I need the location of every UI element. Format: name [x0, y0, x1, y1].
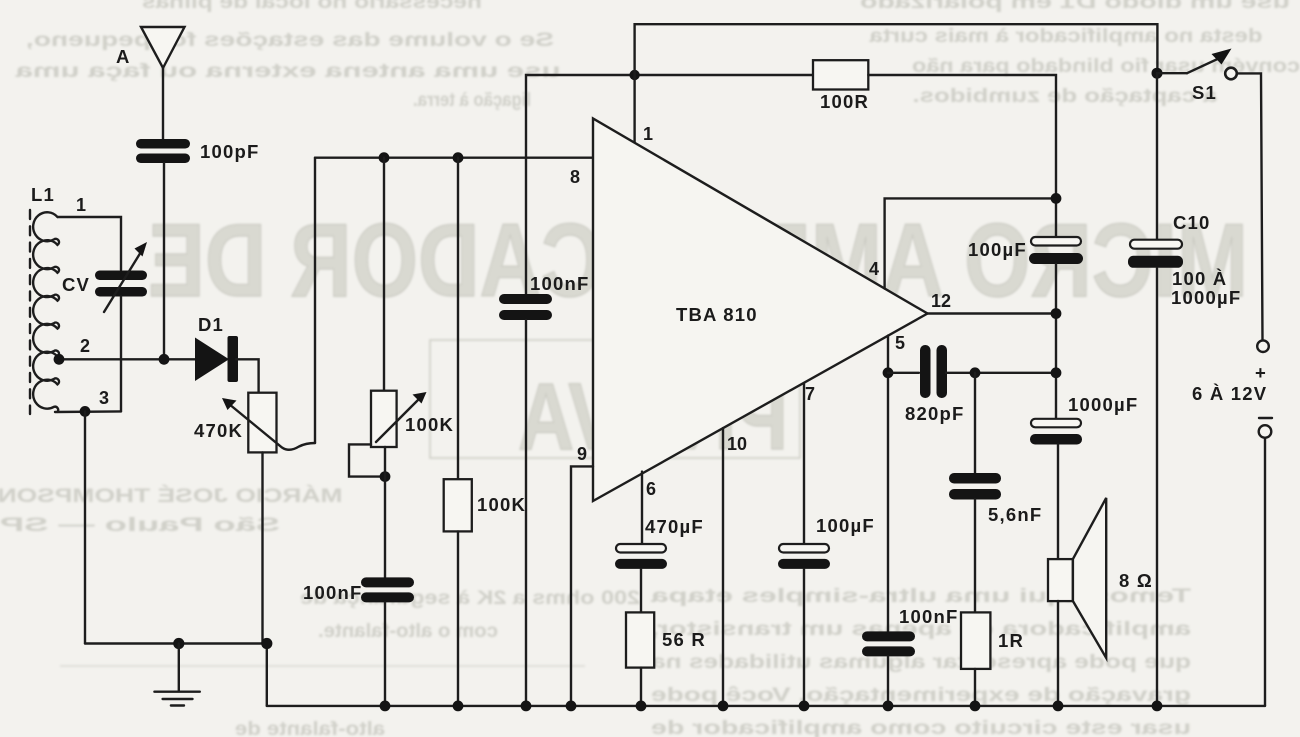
svg-text:5,6nF: 5,6nF [988, 504, 1042, 525]
node + terminal [1257, 340, 1269, 352]
node bus junction C10 [1152, 701, 1163, 712]
svg-text:100µF: 100µF [968, 239, 1027, 260]
svg-text:necessário no local de pilhas: necessário no local de pilhas [142, 0, 482, 13]
ghost rule bottom-left [60, 665, 585, 667]
svg-text:5: 5 [895, 333, 905, 353]
svg-text:D1: D1 [198, 314, 224, 335]
svg-text:TBA 810: TBA 810 [676, 304, 758, 325]
svg-text:use uma antena externa ou faça: use uma antena externa ou faça uma [15, 60, 560, 82]
wire pin3 down to ground rail [84, 411, 86, 643]
svg-text:A: A [116, 46, 131, 67]
speaker 8 ohm [1048, 559, 1073, 601]
svg-text:4: 4 [869, 259, 879, 279]
node bus junction 100uF [799, 701, 810, 712]
svg-text:Temos aqui uma ultra-simples e: Temos aqui uma ultra-simples etapa [651, 585, 1191, 607]
svg-text:use um diodo D1 em polarizado: use um diodo D1 em polarizado [860, 0, 1290, 13]
potentiometer 100K [371, 391, 397, 447]
svg-text:1000µF: 1000µF [1068, 394, 1138, 415]
svg-text:12: 12 [931, 291, 951, 311]
node coil tap 2 [54, 354, 65, 365]
wire pot to 100nF [384, 447, 386, 577]
node bus junction 56R [636, 701, 647, 712]
wire C10 supply line [1156, 73, 1158, 240]
svg-text:São Paulo — SP: São Paulo — SP [0, 514, 280, 536]
wire 100pF to detector line [163, 163, 165, 359]
node bus junction volume line [380, 701, 391, 712]
wire 470K wiper to pin8 rail [314, 158, 316, 443]
node pin5 820pF [883, 367, 894, 378]
svg-text:8: 8 [570, 167, 580, 187]
svg-text:56 R: 56 R [662, 629, 706, 650]
antenna A [141, 27, 185, 68]
svg-text:Se o volume das estações for p: Se o volume das estações for pequeno, [26, 29, 554, 51]
svg-text:C10: C10 [1173, 212, 1211, 233]
svg-text:820pF: 820pF [905, 403, 964, 424]
svg-text:3: 3 [99, 388, 109, 408]
wire S1 to + terminal [1237, 73, 1263, 340]
svg-text:L1: L1 [31, 184, 55, 205]
wire 5,6nF line [974, 373, 976, 473]
wire rail A top [635, 24, 1158, 143]
svg-text:100nF: 100nF [530, 273, 589, 294]
svg-text:1: 1 [643, 124, 653, 144]
wire pin5 [887, 336, 889, 632]
node pin3 [80, 406, 91, 417]
node bus junction 1R [970, 701, 981, 712]
wire diode to 470K [236, 359, 259, 392]
svg-text:que pode apresentar algumas ut: que pode apresentar algumas utilidades n… [651, 651, 1191, 673]
potentiometer 470K [248, 393, 276, 453]
ghost frame around PROVA [430, 340, 800, 458]
capacitor 100pF [136, 139, 190, 149]
resistor 1R [961, 612, 990, 669]
wire bottom bus [267, 705, 1265, 707]
op-amp U1 TBA810 [593, 119, 928, 502]
wire rail to 100K pot [383, 158, 385, 391]
svg-text:100pF: 100pF [200, 141, 259, 162]
node pin1 rail junction [629, 70, 639, 80]
svg-text:7: 7 [805, 384, 815, 404]
svg-text:8 Ω: 8 Ω [1119, 570, 1153, 591]
node bus junction 100nF pin5 [883, 701, 894, 712]
svg-text:1R: 1R [998, 630, 1024, 651]
node - terminal [1259, 417, 1272, 419]
svg-text:CV: CV [62, 274, 90, 295]
svg-text:MÁRCIO JOSÉ THOMPSON: MÁRCIO JOSÉ THOMPSON [0, 484, 343, 507]
wire pin6 [641, 472, 643, 544]
svg-text:desta no amplificador à mais c: desta no amplificador à mais curta [869, 25, 1262, 47]
wire 470K bottom to ground rail [261, 452, 263, 643]
svg-text:100nF: 100nF [303, 582, 362, 603]
wire pin10 [722, 428, 724, 706]
wire 100K wiper loop [349, 444, 386, 476]
node bus junction 100nF rail [521, 701, 532, 712]
wire ground rail [85, 644, 267, 706]
capacitor 820pF [888, 372, 919, 374]
svg-text:100nF: 100nF [899, 606, 958, 627]
wire pin12 [928, 312, 1057, 314]
svg-text:100K: 100K [477, 494, 526, 515]
node wiper junction [380, 471, 391, 482]
resistor 100R [813, 60, 868, 89]
resistor 100K [444, 479, 472, 531]
wire Vcc bypass line [526, 75, 813, 294]
svg-text:a captação de zumbidos.: a captação de zumbidos. [913, 85, 1218, 107]
node antenna junction [159, 354, 170, 365]
svg-text:9: 9 [577, 444, 587, 464]
svg-text:100 À: 100 À [1172, 268, 1227, 289]
node bus junction pin10 [718, 701, 729, 712]
svg-text:470µF: 470µF [645, 516, 704, 537]
svg-text:1: 1 [76, 195, 86, 215]
node ground stem [173, 638, 184, 649]
node 470K bottom [261, 638, 272, 649]
svg-text:100µF: 100µF [816, 515, 875, 536]
svg-text:1000µF: 1000µF [1171, 287, 1241, 308]
wire 100K resistor line [457, 158, 459, 480]
wire pin7 [803, 383, 805, 544]
svg-text:com o alto-falante.: com o alto-falante. [318, 620, 498, 642]
wire CV to pin3 line [120, 297, 122, 412]
node 100K res top [453, 152, 464, 163]
svg-text:100R: 100R [820, 91, 869, 112]
svg-text:S1: S1 [1192, 82, 1217, 103]
wire 100R to bootstrap line [868, 75, 1056, 237]
node output junction [1051, 367, 1062, 378]
svg-text:100K: 100K [405, 414, 454, 435]
svg-text:470K: 470K [194, 420, 243, 441]
node 5,6nF top [970, 367, 981, 378]
svg-text:gravação de experimentação. Vo: gravação de experimentação. Você pode [651, 684, 1191, 706]
svg-text:+: + [1255, 362, 1267, 383]
node pin4 bootstrap [1051, 193, 1062, 204]
svg-text:10: 10 [727, 434, 747, 454]
node 100K pot top [379, 152, 390, 163]
capacitor 5,6nF [949, 473, 1001, 484]
resistor 56R [626, 612, 654, 667]
ground [178, 644, 180, 692]
svg-text:alto-falante de: alto-falante de [235, 718, 385, 737]
wire antenna stem [162, 68, 164, 139]
wire pin8 rail [315, 156, 593, 158]
wire pin4 [885, 198, 1056, 288]
node bus junction speaker [1053, 701, 1064, 712]
switch S1 [1152, 68, 1163, 79]
svg-text:6 À 12V: 6 À 12V [1192, 383, 1267, 404]
svg-text:6: 6 [646, 479, 656, 499]
node bus junction pin9 [566, 701, 577, 712]
node bus junction 100K resistor [453, 701, 464, 712]
node pin12 junction [1051, 308, 1062, 319]
svg-text:2: 2 [80, 336, 90, 356]
wire pin9 [571, 466, 593, 706]
svg-text:ligação à terra.: ligação à terra. [413, 89, 531, 111]
svg-text:usar este circuito como amplif: usar este circuito como amplificador de [651, 717, 1191, 737]
